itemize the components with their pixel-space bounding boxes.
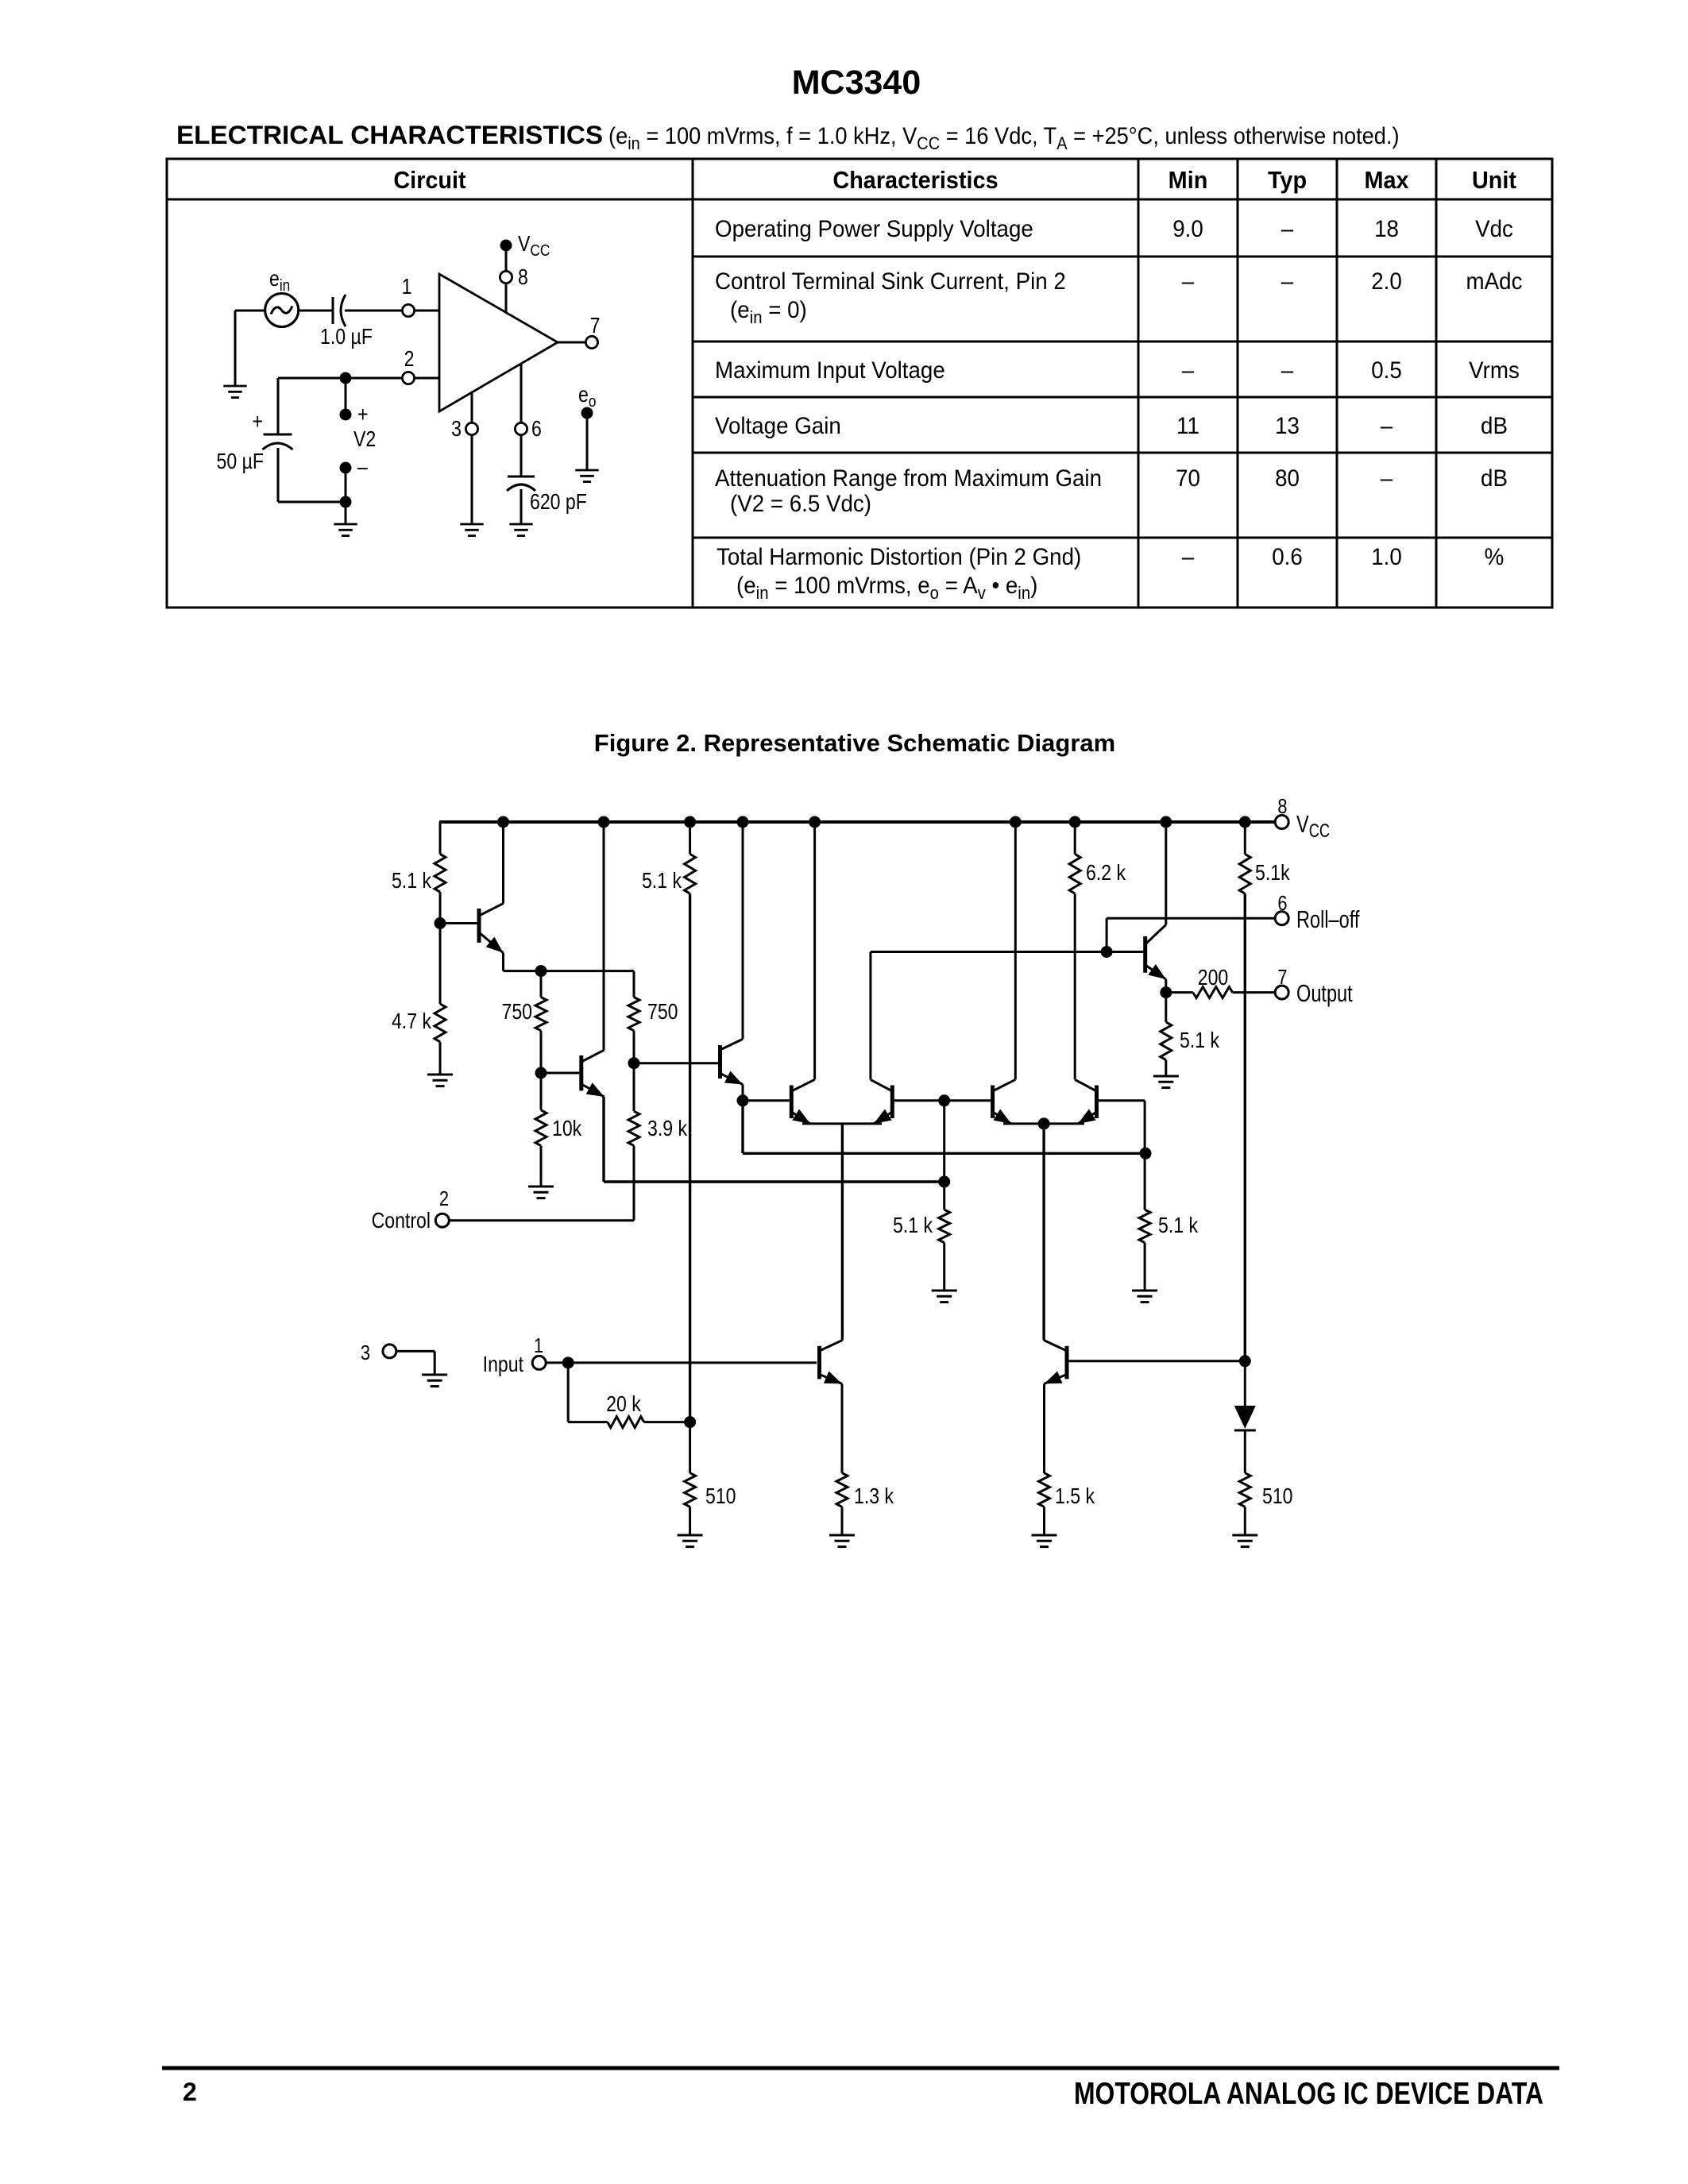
node at cap/V2 bottom [340, 496, 352, 508]
transistor Q6 second pair left [991, 1086, 995, 1119]
resistor R1 5.1k [439, 822, 442, 854]
resistor R2 4.7k [439, 924, 442, 1005]
resistor R9 5.1k [1244, 822, 1246, 854]
svg-text:1.3 k: 1.3 k [854, 1484, 894, 1508]
svg-text:620 pF: 620 pF [530, 490, 587, 514]
node pin6 tap [1101, 946, 1113, 958]
wire pin 8 to Vcc [505, 284, 508, 313]
diode D1 [1244, 1361, 1246, 1406]
node junction on pin2 wire [340, 372, 352, 384]
resistor R12 200 [1166, 991, 1193, 994]
svg-text:6.2 k: 6.2 k [1086, 861, 1126, 885]
wire node to pin 2 [278, 377, 402, 380]
svg-text:Characteristics: Characteristics [832, 167, 998, 194]
wire source to left ground [235, 310, 265, 312]
node rail Q1 collector [497, 816, 509, 828]
resistor R17 1.5 k [1039, 1473, 1050, 1507]
capacitor C1 1.0uF [332, 297, 334, 324]
svg-text:510: 510 [705, 1484, 736, 1508]
wire amplifier output to pin 7 [558, 341, 585, 344]
node rail Q4 collector [809, 816, 821, 828]
svg-text:3.9 k: 3.9 k [647, 1117, 687, 1140]
node second pair base bias [1140, 1148, 1152, 1160]
wire pin 1 to Q9 base [546, 1361, 817, 1364]
svg-text:7: 7 [1277, 966, 1287, 989]
pin 6 terminal Roll-off [1275, 912, 1288, 925]
ground below pin 3 [460, 523, 483, 526]
resistor R4 750 [633, 971, 635, 997]
svg-text:–: – [1281, 268, 1294, 295]
svg-text:2.0: 2.0 [1371, 268, 1402, 295]
svg-text:Voltage Gain: Voltage Gain [715, 413, 841, 439]
svg-text:1.5 k: 1.5 k [1055, 1484, 1095, 1508]
ground below C3 [509, 523, 532, 526]
transistor Q4 first pair left [790, 1086, 794, 1119]
svg-text:Vrms: Vrms [1469, 357, 1520, 384]
wire first pair tail [841, 1124, 844, 1341]
svg-text:10k: 10k [552, 1117, 581, 1140]
svg-text:–: – [1381, 413, 1393, 439]
svg-text:3: 3 [361, 1341, 370, 1364]
svg-text:7: 7 [590, 314, 601, 338]
svg-text:5.1k: 5.1k [1255, 861, 1290, 885]
resistor R18 510 [1239, 1473, 1250, 1507]
svg-text:Attenuation Range from Maximum: Attenuation Range from Maximum Gain [715, 465, 1102, 492]
wire pin 1 to amplifier [415, 310, 439, 312]
resistor R10 5.1 k [943, 1101, 945, 1210]
svg-text:20 k: 20 k [606, 1392, 641, 1416]
transistor Q1 [477, 909, 481, 943]
wire pin 6 to Q8 base [1107, 917, 1275, 920]
svg-text:Control Terminal Sink Current,: Control Terminal Sink Current, Pin 2 [715, 268, 1066, 295]
svg-text:0.6: 0.6 [1272, 544, 1303, 570]
svg-text:1: 1 [402, 275, 412, 299]
wire pin 3 down [471, 392, 473, 423]
svg-text:2: 2 [183, 2078, 197, 2106]
ground below R17 [1032, 1534, 1057, 1537]
wire Q1 emitter bus [504, 970, 635, 972]
svg-text:Vdc: Vdc [1475, 216, 1513, 242]
transistor Q9 input [817, 1346, 821, 1379]
node Q3 base [628, 1057, 640, 1069]
capacitor C3 620pF [508, 476, 535, 478]
ground below R15 [678, 1534, 703, 1537]
wire V2 bottom [345, 468, 347, 502]
svg-text:%: % [1485, 544, 1505, 570]
resistor R7 5.1k [689, 822, 691, 854]
resistor R11 5.1 k [1144, 1153, 1146, 1210]
wire Q2 emitter to first pair bases [602, 1097, 605, 1182]
svg-text:5.1 k: 5.1 k [392, 869, 431, 893]
svg-text:18: 18 [1374, 216, 1399, 242]
node rail R8 [1069, 816, 1081, 828]
resistor R8 6.2k [1074, 893, 1076, 1079]
svg-text:1: 1 [534, 1334, 543, 1357]
pin 1 terminal Input [532, 1356, 546, 1369]
node R3 top [535, 965, 547, 977]
wire pin 6 down [520, 364, 523, 423]
transistor Q10 second tail source [1065, 1346, 1069, 1379]
pin 8 terminal [500, 271, 512, 283]
svg-text:2: 2 [404, 347, 415, 371]
svg-text:6: 6 [1277, 892, 1287, 915]
svg-text:–: – [1182, 357, 1195, 384]
pin 7 terminal [585, 336, 597, 348]
wire pin 3 to ground [396, 1350, 435, 1352]
svg-text:13: 13 [1275, 413, 1300, 439]
Vcc supply rail [439, 820, 1276, 824]
ground below R5 [528, 1186, 554, 1188]
node Q1 base [435, 917, 446, 929]
node Q10 base [1239, 1355, 1251, 1367]
output node eo [581, 407, 593, 419]
V2 plus node [340, 409, 352, 421]
pin 2 terminal [402, 372, 414, 384]
svg-text:–: – [1281, 357, 1294, 384]
ground below R10 [932, 1290, 957, 1292]
table outer border [166, 158, 1554, 160]
V2 minus node [340, 462, 352, 474]
svg-text:dB: dB [1481, 465, 1508, 492]
svg-text:510: 510 [1262, 1484, 1293, 1508]
node input [562, 1356, 574, 1368]
wire Q5 collector to Q8 base [869, 952, 871, 1080]
node Q2 base [535, 1067, 547, 1079]
svg-text:Figure 2. Representative Schem: Figure 2. Representative Schematic Diagr… [594, 729, 1115, 757]
node rail Q2 collector [598, 816, 610, 828]
node Q8 emitter [1160, 986, 1172, 998]
svg-text:1.0: 1.0 [1371, 544, 1402, 570]
wire C2 to bottom corner [277, 448, 280, 502]
wire second pair tail [1042, 1124, 1045, 1341]
table column lines [692, 159, 694, 608]
svg-text:5.1 k: 5.1 k [893, 1214, 933, 1237]
svg-text:Circuit: Circuit [393, 167, 465, 194]
wire eo to ground [586, 419, 589, 470]
pin 6 terminal [515, 423, 527, 434]
svg-text:(ein = 100 mVrms, eo = Av • ei: (ein = 100 mVrms, eo = Av • ein) [736, 573, 1037, 603]
svg-text:Operating Power Supply Voltage: Operating Power Supply Voltage [715, 216, 1033, 242]
signal source ein [265, 294, 299, 327]
table header separator [167, 199, 1552, 201]
svg-text:9.0: 9.0 [1172, 216, 1203, 242]
svg-text:MOTOROLA ANALOG IC DEVICE DATA: MOTOROLA ANALOG IC DEVICE DATA [1074, 2076, 1543, 2111]
svg-text:Unit: Unit [1472, 167, 1516, 194]
svg-text:+: + [253, 410, 263, 434]
svg-text:(ein = 0): (ein = 0) [730, 297, 807, 327]
wire to ground below V2 [345, 502, 347, 524]
svg-text:–: – [357, 455, 369, 479]
svg-text:750: 750 [647, 1000, 678, 1024]
svg-text:–: – [1381, 465, 1393, 492]
svg-text:MC3340: MC3340 [792, 64, 921, 102]
svg-text:50 µF: 50 µF [217, 450, 264, 473]
wire V2 source top [345, 378, 347, 415]
ground at source [223, 385, 246, 388]
svg-text:–: – [1281, 216, 1294, 242]
pin 3 terminal [465, 423, 477, 434]
node Q3 emitter [737, 1094, 749, 1106]
svg-text:80: 80 [1275, 465, 1300, 492]
pin 3 terminal [383, 1345, 396, 1358]
wire corner down to capacitor C2 [277, 378, 280, 434]
transistor Q5 first pair right [890, 1086, 894, 1119]
svg-text:Input: Input [483, 1352, 523, 1376]
svg-text:70: 70 [1176, 465, 1200, 492]
svg-text:1.0 µF: 1.0 µF [320, 325, 373, 349]
wire Q3 emitter bus [741, 1101, 744, 1154]
pin 7 terminal Output [1275, 986, 1288, 999]
svg-text:V2: V2 [353, 427, 376, 451]
svg-text:Maximum Input Voltage: Maximum Input Voltage [715, 357, 945, 384]
svg-text:Max: Max [1364, 167, 1408, 194]
svg-text:5.1 k: 5.1 k [642, 869, 682, 893]
svg-text:8: 8 [518, 265, 528, 289]
wire C3 to ground [520, 489, 523, 524]
svg-text:6: 6 [531, 417, 542, 441]
ground below R18 [1232, 1534, 1257, 1537]
svg-text:ELECTRICAL CHARACTERISTICS: ELECTRICAL CHARACTERISTICS [176, 121, 603, 149]
svg-text:+: + [357, 403, 368, 426]
resistor R16 1.3 k [836, 1473, 848, 1507]
svg-text:8: 8 [1277, 795, 1287, 818]
svg-text:Typ: Typ [1268, 167, 1307, 194]
svg-text:200: 200 [1198, 966, 1229, 990]
resistor R13 5.1 k [1165, 993, 1167, 1022]
wire base join to Q6 [944, 1099, 991, 1102]
svg-text:Control: Control [372, 1209, 431, 1233]
svg-text:3: 3 [451, 417, 462, 441]
ground below R16 [829, 1534, 855, 1537]
wire C1 to pin 1 [345, 310, 402, 312]
svg-text:dB: dB [1481, 413, 1508, 439]
svg-text:5.1 k: 5.1 k [1180, 1028, 1219, 1052]
svg-text:11: 11 [1176, 413, 1199, 439]
pin 2 terminal Control [435, 1214, 449, 1227]
resistor R14 20k [568, 1421, 608, 1423]
node rail Q3 collector [737, 816, 749, 828]
node input bias [684, 1416, 696, 1428]
resistor R15 510 [689, 1422, 691, 1473]
ground at pin 3 [422, 1374, 447, 1376]
wire Q7 base bias [1144, 1101, 1146, 1154]
ground below V2 [334, 523, 357, 526]
svg-text:(ein = 100 mVrms, f = 1.0 kHz,: (ein = 100 mVrms, f = 1.0 kHz, VCC = 16 … [608, 123, 1400, 153]
node first pair base bias [938, 1176, 950, 1188]
svg-text:Total Harmonic Distortion (Pin: Total Harmonic Distortion (Pin 2 Gnd) [717, 544, 1081, 570]
node rail R9 [1239, 816, 1251, 828]
svg-text:4.7 k: 4.7 k [392, 1009, 431, 1033]
transistor Q8 output follower [1143, 936, 1147, 973]
footer rule [162, 2066, 1559, 2070]
wire input node down [567, 1363, 570, 1422]
svg-text:2: 2 [439, 1187, 449, 1210]
transistor Q2 [579, 1055, 583, 1090]
node rail R7 [684, 816, 696, 828]
Vcc node dot [500, 240, 512, 252]
pin 8 terminal Vcc [1275, 816, 1288, 829]
resistor R3 750 [540, 971, 543, 997]
wire first pair common emitter [802, 1122, 882, 1125]
pin 1 terminal [402, 304, 414, 316]
ground below R13 [1153, 1075, 1179, 1078]
table row separators [693, 256, 1552, 258]
wire source to capacitor C1 [298, 310, 333, 312]
svg-text:Output: Output [1296, 979, 1353, 1007]
transistor Q3 [718, 1045, 722, 1078]
resistor R6 3.9k [633, 1063, 635, 1112]
wire Control to R6 [449, 1219, 634, 1221]
transistor Q7 second pair right [1095, 1086, 1099, 1119]
svg-text:Min: Min [1168, 167, 1208, 194]
capacitor C2 50uF [264, 434, 292, 436]
svg-text:750: 750 [501, 1000, 532, 1024]
wire second pair common emitter [1003, 1122, 1084, 1125]
svg-text:0.5: 0.5 [1371, 357, 1402, 384]
svg-text:(V2 = 6.5 Vdc): (V2 = 6.5 Vdc) [730, 491, 871, 517]
node rail Q6 collector [1010, 816, 1022, 828]
ground below eo [575, 469, 598, 472]
svg-text:mAdc: mAdc [1466, 268, 1523, 295]
ground below R2 [427, 1074, 453, 1076]
svg-text:Roll–off: Roll–off [1296, 905, 1360, 933]
node Q4 Q5 base join [938, 1094, 950, 1106]
node rail Q8 collector [1160, 816, 1172, 828]
amplifier U1 triangle [439, 274, 558, 411]
node second pair tail [1038, 1117, 1050, 1129]
resistor R5 10k [540, 1073, 543, 1110]
svg-text:5.1 k: 5.1 k [1158, 1214, 1198, 1237]
ground below R11 [1132, 1290, 1157, 1292]
svg-text:–: – [1182, 544, 1195, 570]
svg-text:–: – [1182, 268, 1195, 295]
